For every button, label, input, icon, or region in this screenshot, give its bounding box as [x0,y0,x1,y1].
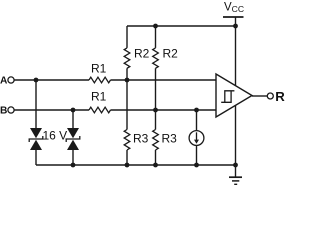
junction: A to diode column [34,78,39,83]
ground [229,165,242,184]
wire: current source top lead [196,110,198,131]
wire: B row right segment [111,109,217,111]
junction: B row / current source [194,108,199,113]
svg-text:R1: R1 [91,62,107,76]
svg-text:A: A [0,75,8,86]
resistor R1 (B row) [89,107,111,113]
resistor R1 (A row) [89,77,111,83]
wire: N2 top lead [155,26,157,48]
resistor R2 (right) [153,48,159,68]
junction: B row / N2 [153,108,158,113]
wire: A row left segment [14,79,89,81]
junction: top rail / N2 [153,24,158,29]
wire: Vcc vertical (rail to comparator) [235,26,237,86]
wire: A row right segment [111,79,217,81]
svg-text:16 V: 16 V [43,129,68,143]
hysteresis symbol [221,91,234,103]
svg-text:VCC: VCC [224,2,244,15]
current source I1 [189,131,204,146]
junction: bottom rail / N1 [125,163,130,168]
junction: bottom rail / right diode [71,163,76,168]
junction: A row / N1 [125,78,130,83]
wire: Vcc top rail [127,25,236,27]
resistor R3 (left) [124,130,130,151]
wire: N2 middle [155,68,157,129]
wire: B row left segment [14,109,89,111]
svg-text:R1: R1 [91,90,107,104]
wire: N1 middle [126,68,128,129]
wire: comparator to ground rail [235,105,237,165]
resistor R3 (right) [153,130,159,151]
wire: A junction down / zener diode D1 (16 V) [35,80,37,128]
junction: bottom rail / ground stem [233,163,238,168]
junction: bottom rail / N2 [153,163,158,168]
wire: N1 top lead [126,26,128,48]
wire: comparator output [252,95,267,97]
svg-text:R2: R2 [134,47,150,61]
junction: top rail / Vcc stem [233,24,238,29]
power VCC bar [223,16,244,18]
svg-text:R2: R2 [163,47,179,61]
wire: B junction down / zener diode D2 (16 V) [72,110,74,128]
wire: Vcc stem [235,17,237,26]
svg-text:R3: R3 [162,132,178,146]
junction: bottom rail / current source [194,163,199,168]
wire: N1 bottom lead [126,150,128,165]
wire: N2 bottom lead [155,150,157,165]
svg-text:B: B [0,105,7,116]
resistor R2 (left) [124,48,130,68]
junction: B to diode column [71,108,76,113]
svg-text:R: R [275,89,285,104]
wire: current source bottom lead [196,145,198,165]
svg-text:R3: R3 [133,132,149,146]
wire: ground bottom rail [36,164,236,166]
op-amp comparator U1 (Schmitt) [216,74,252,117]
node R output terminal [267,93,273,99]
